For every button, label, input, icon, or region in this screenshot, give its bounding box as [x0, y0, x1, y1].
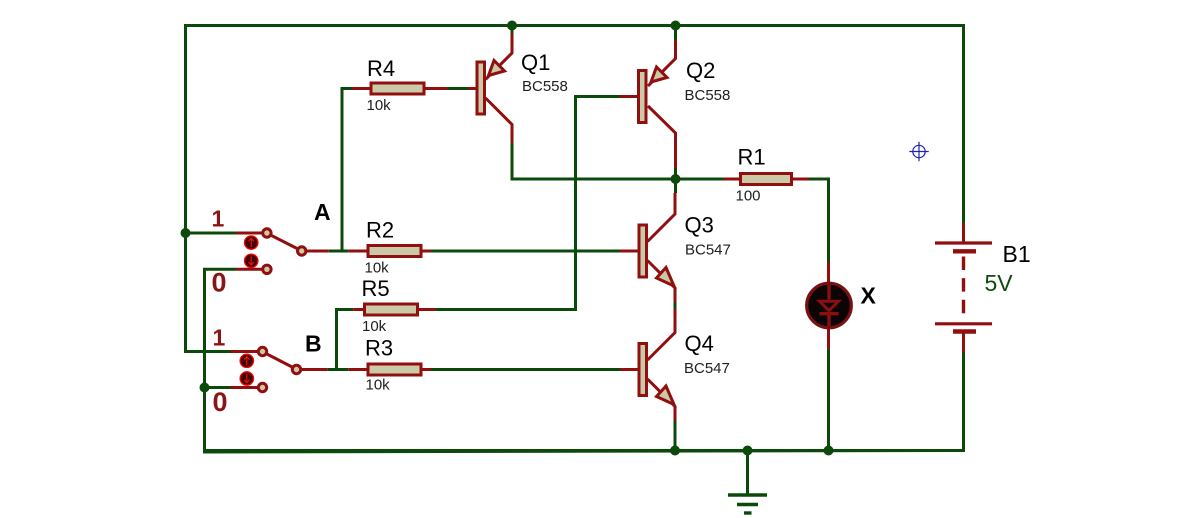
- junction dot bottom rail LED: [824, 446, 834, 456]
- wire top rail VCC: [184, 24, 965, 27]
- switch A toggle button down: [245, 254, 258, 267]
- ground: [728, 451, 767, 514]
- wire node B net: pole B to R3, R5 tap: [328, 310, 620, 370]
- svg-text:Q3: Q3: [685, 213, 714, 238]
- svg-text:0: 0: [212, 268, 227, 298]
- wire left border (VCC down to switch B '1'): [186, 24, 231, 352]
- svg-text:BC558: BC558: [685, 87, 731, 104]
- junction dot bottom rail Q4 emitter: [670, 446, 680, 456]
- svg-text:10k: 10k: [362, 318, 387, 335]
- wire R1 to LED anode: [809, 179, 829, 262]
- wire R2 to Q3 base: [431, 250, 620, 253]
- wire switch A '1' from left rail: [186, 232, 237, 235]
- svg-text:0: 0: [213, 387, 228, 417]
- wire right border (VCC down to battery top): [962, 24, 965, 223]
- svg-text:B1: B1: [1003, 241, 1031, 267]
- transistor Q2 PNP BC558: [620, 41, 676, 169]
- wire LED cathode to bottom rail: [827, 349, 830, 451]
- wire R5 to Q2 base: [436, 97, 621, 310]
- transistor Q3 NPN BC547: [620, 193, 675, 303]
- wire output node to R1: [676, 178, 725, 181]
- svg-text:BC547: BC547: [685, 242, 731, 259]
- wire Q3 emitter to Q4 collector green segment: [674, 303, 677, 309]
- transistor Q4 NPN BC547: [620, 309, 675, 421]
- resistor R4: [352, 83, 448, 94]
- switch A toggle button up: [245, 236, 258, 249]
- wire Q1 emitter green stub: [511, 26, 514, 35]
- switch B toggle button up: [240, 354, 253, 367]
- junction dot left rail switch A: [181, 228, 191, 238]
- junction dot top rail left (Q1 emitter): [507, 21, 517, 31]
- svg-text:Q1: Q1: [521, 50, 550, 75]
- wire Q2 emitter green stub: [674, 26, 677, 41]
- wire bottom rail GND: [203, 449, 965, 452]
- svg-text:10k: 10k: [366, 377, 391, 394]
- LED X: [807, 262, 852, 349]
- resistor R2: [348, 246, 431, 257]
- svg-text:1: 1: [212, 206, 225, 232]
- switch B toggle button down: [240, 372, 253, 385]
- svg-text:5V: 5V: [985, 270, 1014, 296]
- svg-text:X: X: [861, 282, 877, 308]
- switch A (logic input SPDT): [236, 229, 329, 274]
- wire switch B '0' stub: [205, 386, 231, 389]
- resistor R1: [724, 174, 809, 185]
- junction dot output node: [671, 174, 681, 184]
- svg-text:A: A: [314, 199, 331, 225]
- svg-text:100: 100: [736, 188, 761, 205]
- junction dot top rail right (Q2 emitter): [671, 21, 681, 31]
- junction dot 0-rail switch B: [200, 383, 210, 393]
- battery B1: [935, 223, 992, 353]
- svg-text:BC547: BC547: [684, 360, 730, 377]
- svg-text:10k: 10k: [367, 97, 392, 114]
- wire R4 to Q1 base mid segment: [448, 87, 469, 90]
- svg-text:Q2: Q2: [686, 58, 715, 83]
- svg-text:R1: R1: [738, 145, 766, 170]
- svg-text:Q4: Q4: [685, 331, 714, 356]
- wire node A net: pole A to R2 and up to R4: [329, 89, 352, 252]
- svg-text:B: B: [305, 330, 322, 356]
- transistor Q1 PNP BC558: [468, 34, 512, 143]
- junction dot bottom rail ground tap: [743, 446, 753, 456]
- resistor R3: [348, 364, 431, 375]
- svg-text:10k: 10k: [365, 260, 390, 277]
- switch B (logic input SPDT): [231, 347, 328, 391]
- svg-text:R2: R2: [366, 218, 394, 243]
- wire switch A '0' down-rail: [205, 269, 237, 450]
- svg-text:BC558: BC558: [522, 78, 568, 95]
- wire Q2 collector stub green: [674, 168, 677, 179]
- wire Q1 collector to output node: [512, 143, 676, 179]
- svg-text:1: 1: [213, 325, 226, 351]
- origin marker crosshair: [909, 142, 928, 161]
- wire Q4 emitter to bottom rail: [674, 421, 677, 451]
- svg-text:R4: R4: [367, 56, 395, 81]
- svg-text:R5: R5: [362, 276, 390, 301]
- wire Q3 collector stub green: [674, 179, 677, 193]
- resistor R5: [353, 304, 435, 315]
- svg-text:R3: R3: [365, 336, 393, 361]
- wire battery bottom to bottom rail: [962, 353, 965, 453]
